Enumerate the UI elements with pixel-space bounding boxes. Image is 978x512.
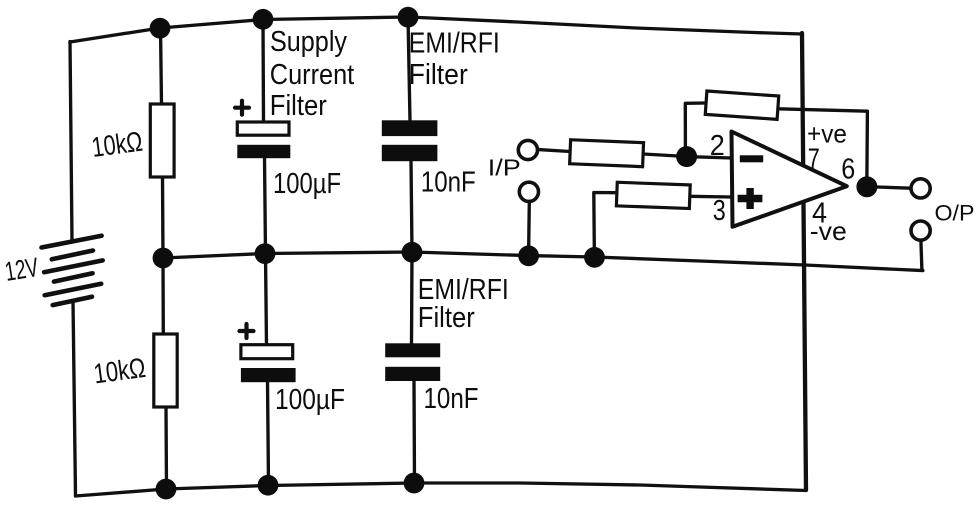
svg-text:10nF: 10nF xyxy=(424,383,479,415)
svg-text:Supply: Supply xyxy=(270,26,347,58)
wire C3 to bottom rail xyxy=(268,382,269,486)
wire left vertical from top rail to battery xyxy=(70,42,72,242)
svg-text:EMI/RFI: EMI/RFI xyxy=(409,27,500,59)
junction node bottom rail at C3 xyxy=(258,475,279,496)
svg-text:I/P: I/P xyxy=(488,155,521,181)
svg-text:100µF: 100µF xyxy=(273,168,341,200)
wire output node to O/P terminal xyxy=(877,187,910,188)
svg-text:Filter: Filter xyxy=(418,302,475,334)
svg-text:-ve: -ve xyxy=(810,216,847,246)
terminal O/P top xyxy=(911,179,930,198)
op-amp U1 non-inverting plus symbol xyxy=(738,188,763,209)
junction node output pin6 xyxy=(856,176,877,197)
wire R2 to bottom rail xyxy=(164,407,168,490)
wire node up to feedback resistor R4 xyxy=(685,103,705,146)
terminal I/P top xyxy=(518,140,537,159)
resistor R1 10k upper xyxy=(150,104,174,177)
wire I/P bottom terminal to mid rail xyxy=(527,202,531,246)
svg-text:O/P: O/P xyxy=(935,201,975,226)
wire mid rail to C3 xyxy=(266,254,267,346)
resistor R3 input to pin2 xyxy=(570,140,644,167)
wire top rail to C2 xyxy=(408,17,410,122)
svg-text:Filter: Filter xyxy=(409,59,468,91)
capacitor C2 10nF upper top plate xyxy=(382,120,438,136)
capacitor C4 10nF lower bottom plate xyxy=(385,367,440,381)
wire C1 to mid rail xyxy=(265,158,266,255)
resistor R4 feedback xyxy=(705,91,778,119)
capacitor C3 100uF lower polarity plus sign xyxy=(240,324,254,338)
wire top rail to R1 xyxy=(161,28,162,106)
capacitor C3 100uF lower bottom plate xyxy=(241,368,296,382)
wire R1 to mid rail xyxy=(161,177,165,259)
capacitor C1 100uF upper bottom plate xyxy=(237,145,290,158)
resistor R5 bias to pin3 xyxy=(616,182,690,208)
wire R3 to node pin2 xyxy=(643,154,686,157)
op-amp U1 inverting minus symbol xyxy=(740,155,763,162)
junction node top rail at C1 xyxy=(253,9,274,30)
svg-text:12V: 12V xyxy=(3,252,41,287)
junction node mid rail at I/P return xyxy=(518,245,539,266)
svg-text:10kΩ: 10kΩ xyxy=(92,352,148,390)
wire bottom rail xyxy=(76,483,807,496)
wire mid rail to C4 xyxy=(410,252,414,344)
wire C4 to bottom rail xyxy=(412,381,416,484)
svg-text:Filter: Filter xyxy=(270,90,327,122)
capacitor C2 10nF upper bottom plate xyxy=(382,145,438,161)
svg-text:2: 2 xyxy=(710,130,725,162)
svg-text:3: 3 xyxy=(713,195,726,227)
terminal I/P bottom xyxy=(519,182,538,201)
svg-text:10kΩ: 10kΩ xyxy=(90,126,145,163)
wire top rail to C1 xyxy=(261,19,265,123)
wire I/P top terminal to R3 xyxy=(539,150,571,152)
wire C2 to mid rail xyxy=(411,161,412,253)
op-amp U1 xyxy=(732,132,847,227)
wire mid reference rail xyxy=(163,252,923,271)
wire top supply rail xyxy=(70,17,802,42)
junction node mid rail at C2/C4 xyxy=(402,242,423,263)
svg-text:100µF: 100µF xyxy=(275,384,345,416)
terminal O/P bottom xyxy=(911,221,930,240)
junction node inverting input pin2 xyxy=(676,146,697,167)
capacitor C4 10nF lower top plate xyxy=(385,343,440,357)
wire O/P bottom terminal to mid rail xyxy=(921,241,922,270)
wire node to op-amp pin 2 xyxy=(687,157,732,158)
wire right supply vertical (+ve to pin7, pin4 to -ve) xyxy=(802,33,806,490)
svg-text:6: 6 xyxy=(841,153,855,185)
battery B1 12V xyxy=(42,236,103,305)
junction node top rail at R1 xyxy=(150,18,171,39)
svg-text:10nF: 10nF xyxy=(421,167,476,199)
wire mid rail to R2 xyxy=(161,258,165,335)
junction node mid rail at bias xyxy=(584,247,605,268)
junction node mid rail at C1/C3 xyxy=(255,243,276,264)
capacitor C1 100uF upper polarity plus sign xyxy=(235,101,249,115)
capacitor C1 100uF upper top plate xyxy=(237,122,289,135)
wire R5 to op-amp pin 3 xyxy=(690,195,732,199)
junction node mid rail at R1/R2 xyxy=(153,248,174,269)
junction node bottom rail at R2 xyxy=(156,479,177,500)
junction node top rail at C2 xyxy=(398,7,419,28)
capacitor C3 100uF lower top plate xyxy=(241,345,293,359)
svg-text:+ve: +ve xyxy=(807,119,847,149)
wire mid rail up to bias resistor R5 xyxy=(594,193,617,248)
junction node bottom rail at C4 xyxy=(404,473,425,494)
wire battery negative to bottom rail xyxy=(73,301,76,497)
wire R4 to output node xyxy=(778,109,868,177)
svg-text:Current: Current xyxy=(270,59,354,91)
resistor R2 10k lower xyxy=(154,334,177,407)
